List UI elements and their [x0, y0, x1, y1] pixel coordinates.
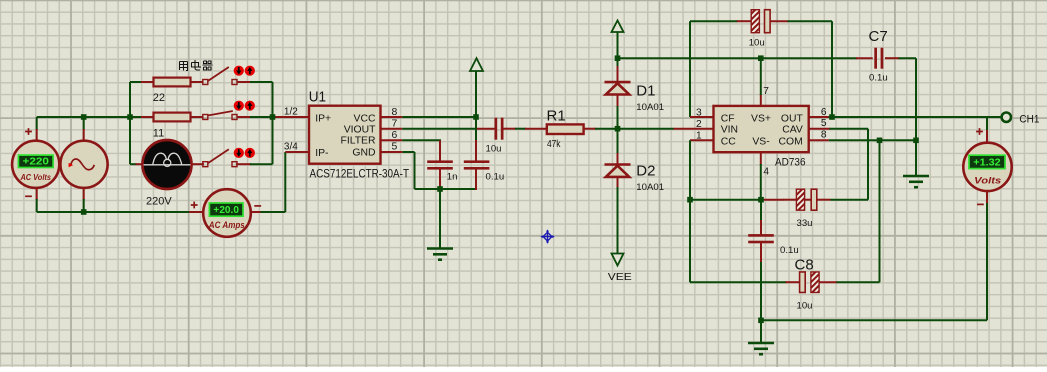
svg-text:7: 7: [392, 118, 398, 129]
svg-text:CH1: CH1: [1019, 114, 1039, 126]
svg-text:R1: R1: [547, 108, 566, 125]
svg-text:5: 5: [821, 118, 827, 129]
svg-text:4: 4: [763, 167, 769, 178]
svg-text:10u: 10u: [486, 143, 502, 154]
svg-text:47k: 47k: [547, 138, 561, 150]
svg-text:CC: CC: [721, 137, 737, 148]
svg-text:U1: U1: [309, 89, 326, 106]
svg-text:1n: 1n: [447, 172, 458, 183]
svg-text:0.1u: 0.1u: [869, 72, 888, 83]
svg-text:2: 2: [696, 119, 702, 130]
svg-text:GND: GND: [352, 147, 375, 158]
svg-text:10A01: 10A01: [636, 102, 664, 113]
svg-text:33u: 33u: [797, 218, 813, 229]
svg-text:1/2: 1/2: [284, 107, 298, 118]
svg-text:8: 8: [392, 107, 398, 118]
svg-text:0.1u: 0.1u: [780, 245, 799, 256]
svg-text:11: 11: [153, 128, 164, 140]
svg-text:10u: 10u: [797, 300, 813, 311]
svg-text:3/4: 3/4: [284, 142, 298, 153]
svg-text:7: 7: [763, 86, 769, 97]
svg-text:OUT: OUT: [781, 113, 804, 124]
svg-text:CAV: CAV: [782, 125, 803, 136]
svg-text:ACS712ELCTR-30A-T: ACS712ELCTR-30A-T: [310, 169, 410, 181]
svg-text:IP-: IP-: [315, 148, 328, 159]
svg-text:VIN: VIN: [721, 125, 738, 136]
svg-text:D2: D2: [636, 163, 655, 180]
svg-text:C8: C8: [795, 257, 814, 274]
svg-text:3: 3: [696, 107, 702, 118]
svg-text:1: 1: [696, 131, 702, 142]
svg-text:AC Volts: AC Volts: [20, 172, 52, 182]
svg-text:IP+: IP+: [315, 113, 331, 124]
svg-text:AD736: AD736: [775, 156, 806, 168]
svg-text:0.1u: 0.1u: [486, 172, 505, 183]
svg-text:5: 5: [392, 141, 398, 152]
svg-text:+220: +220: [23, 156, 50, 167]
svg-text:+1.32: +1.32: [973, 157, 1001, 168]
svg-text:6: 6: [392, 130, 398, 141]
svg-text:D1: D1: [636, 83, 655, 100]
svg-text:Volts: Volts: [974, 175, 1001, 186]
svg-text:VIOUT: VIOUT: [344, 124, 376, 135]
svg-text:22: 22: [153, 92, 165, 104]
svg-text:+20.0: +20.0: [213, 205, 239, 216]
svg-text:CF: CF: [721, 113, 735, 124]
svg-text:VS-: VS-: [752, 137, 769, 148]
svg-text:VS+: VS+: [751, 113, 771, 124]
svg-text:AC Amps: AC Amps: [208, 220, 245, 230]
svg-text:220V: 220V: [146, 196, 172, 208]
svg-text:VCC: VCC: [354, 113, 376, 124]
svg-text:10u: 10u: [749, 38, 765, 49]
svg-text:8: 8: [821, 130, 827, 141]
svg-text:C7: C7: [869, 28, 888, 45]
svg-text:10A01: 10A01: [636, 182, 664, 193]
svg-text:6: 6: [821, 107, 827, 118]
svg-text:COM: COM: [779, 137, 803, 148]
svg-text:VEE: VEE: [608, 271, 632, 283]
svg-text:FILTER: FILTER: [340, 136, 376, 147]
